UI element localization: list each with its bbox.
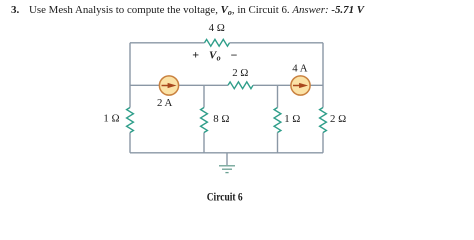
svg-text:+: + bbox=[192, 47, 199, 61]
title text bbox=[11, 4, 366, 17]
svg-text:2 Ω: 2 Ω bbox=[330, 113, 346, 125]
svg-text:8 Ω: 8 Ω bbox=[213, 113, 229, 125]
wire top left segment bbox=[130, 42, 205, 44]
wire ground stub bbox=[226, 153, 228, 165]
svg-text:4 Ω: 4 Ω bbox=[209, 22, 225, 34]
wire 1-ohm branch upper bbox=[277, 85, 279, 107]
wire bottom horizontal bbox=[130, 152, 323, 154]
svg-text:−: − bbox=[231, 48, 238, 62]
svg-text:3.: 3. bbox=[11, 4, 20, 16]
wire right vertical upper bbox=[322, 43, 324, 108]
svg-text:4 A: 4 A bbox=[292, 63, 308, 75]
resistor R 4-ohm top horizontal bbox=[205, 39, 230, 46]
svg-text:2 A: 2 A bbox=[157, 97, 173, 109]
ground bbox=[219, 166, 235, 173]
current source I1 2A bbox=[159, 76, 178, 95]
svg-text:2 Ω: 2 Ω bbox=[232, 67, 248, 79]
svg-text:1 Ω: 1 Ω bbox=[103, 113, 119, 125]
resistor R 8-ohm vertical bbox=[201, 108, 208, 133]
resistor R 1-ohm left vertical bbox=[127, 108, 134, 133]
svg-text:o: o bbox=[217, 53, 221, 62]
svg-text:Circuit 6: Circuit 6 bbox=[207, 189, 243, 203]
wire 8-ohm branch upper bbox=[203, 85, 205, 107]
labels bbox=[103, 22, 346, 125]
wire middle right segment bbox=[253, 84, 323, 86]
wire top right segment bbox=[230, 42, 324, 44]
wire left vertical lower bbox=[129, 133, 131, 153]
wire 8-ohm branch lower bbox=[203, 133, 205, 153]
resistor R 2-ohm middle horizontal bbox=[228, 82, 253, 89]
wire 1-ohm branch lower bbox=[277, 133, 279, 153]
resistor R 1-ohm middle vertical bbox=[274, 108, 281, 133]
svg-text:1 Ω: 1 Ω bbox=[284, 113, 300, 125]
svg-text:Use Mesh Analysis to compute t: Use Mesh Analysis to compute the voltage… bbox=[29, 4, 366, 17]
wire middle left segment bbox=[130, 84, 228, 86]
current source I2 4A bbox=[291, 76, 310, 95]
wire left vertical upper bbox=[129, 43, 131, 108]
resistor R 2-ohm right vertical bbox=[320, 108, 327, 133]
wire right vertical lower bbox=[322, 133, 324, 153]
